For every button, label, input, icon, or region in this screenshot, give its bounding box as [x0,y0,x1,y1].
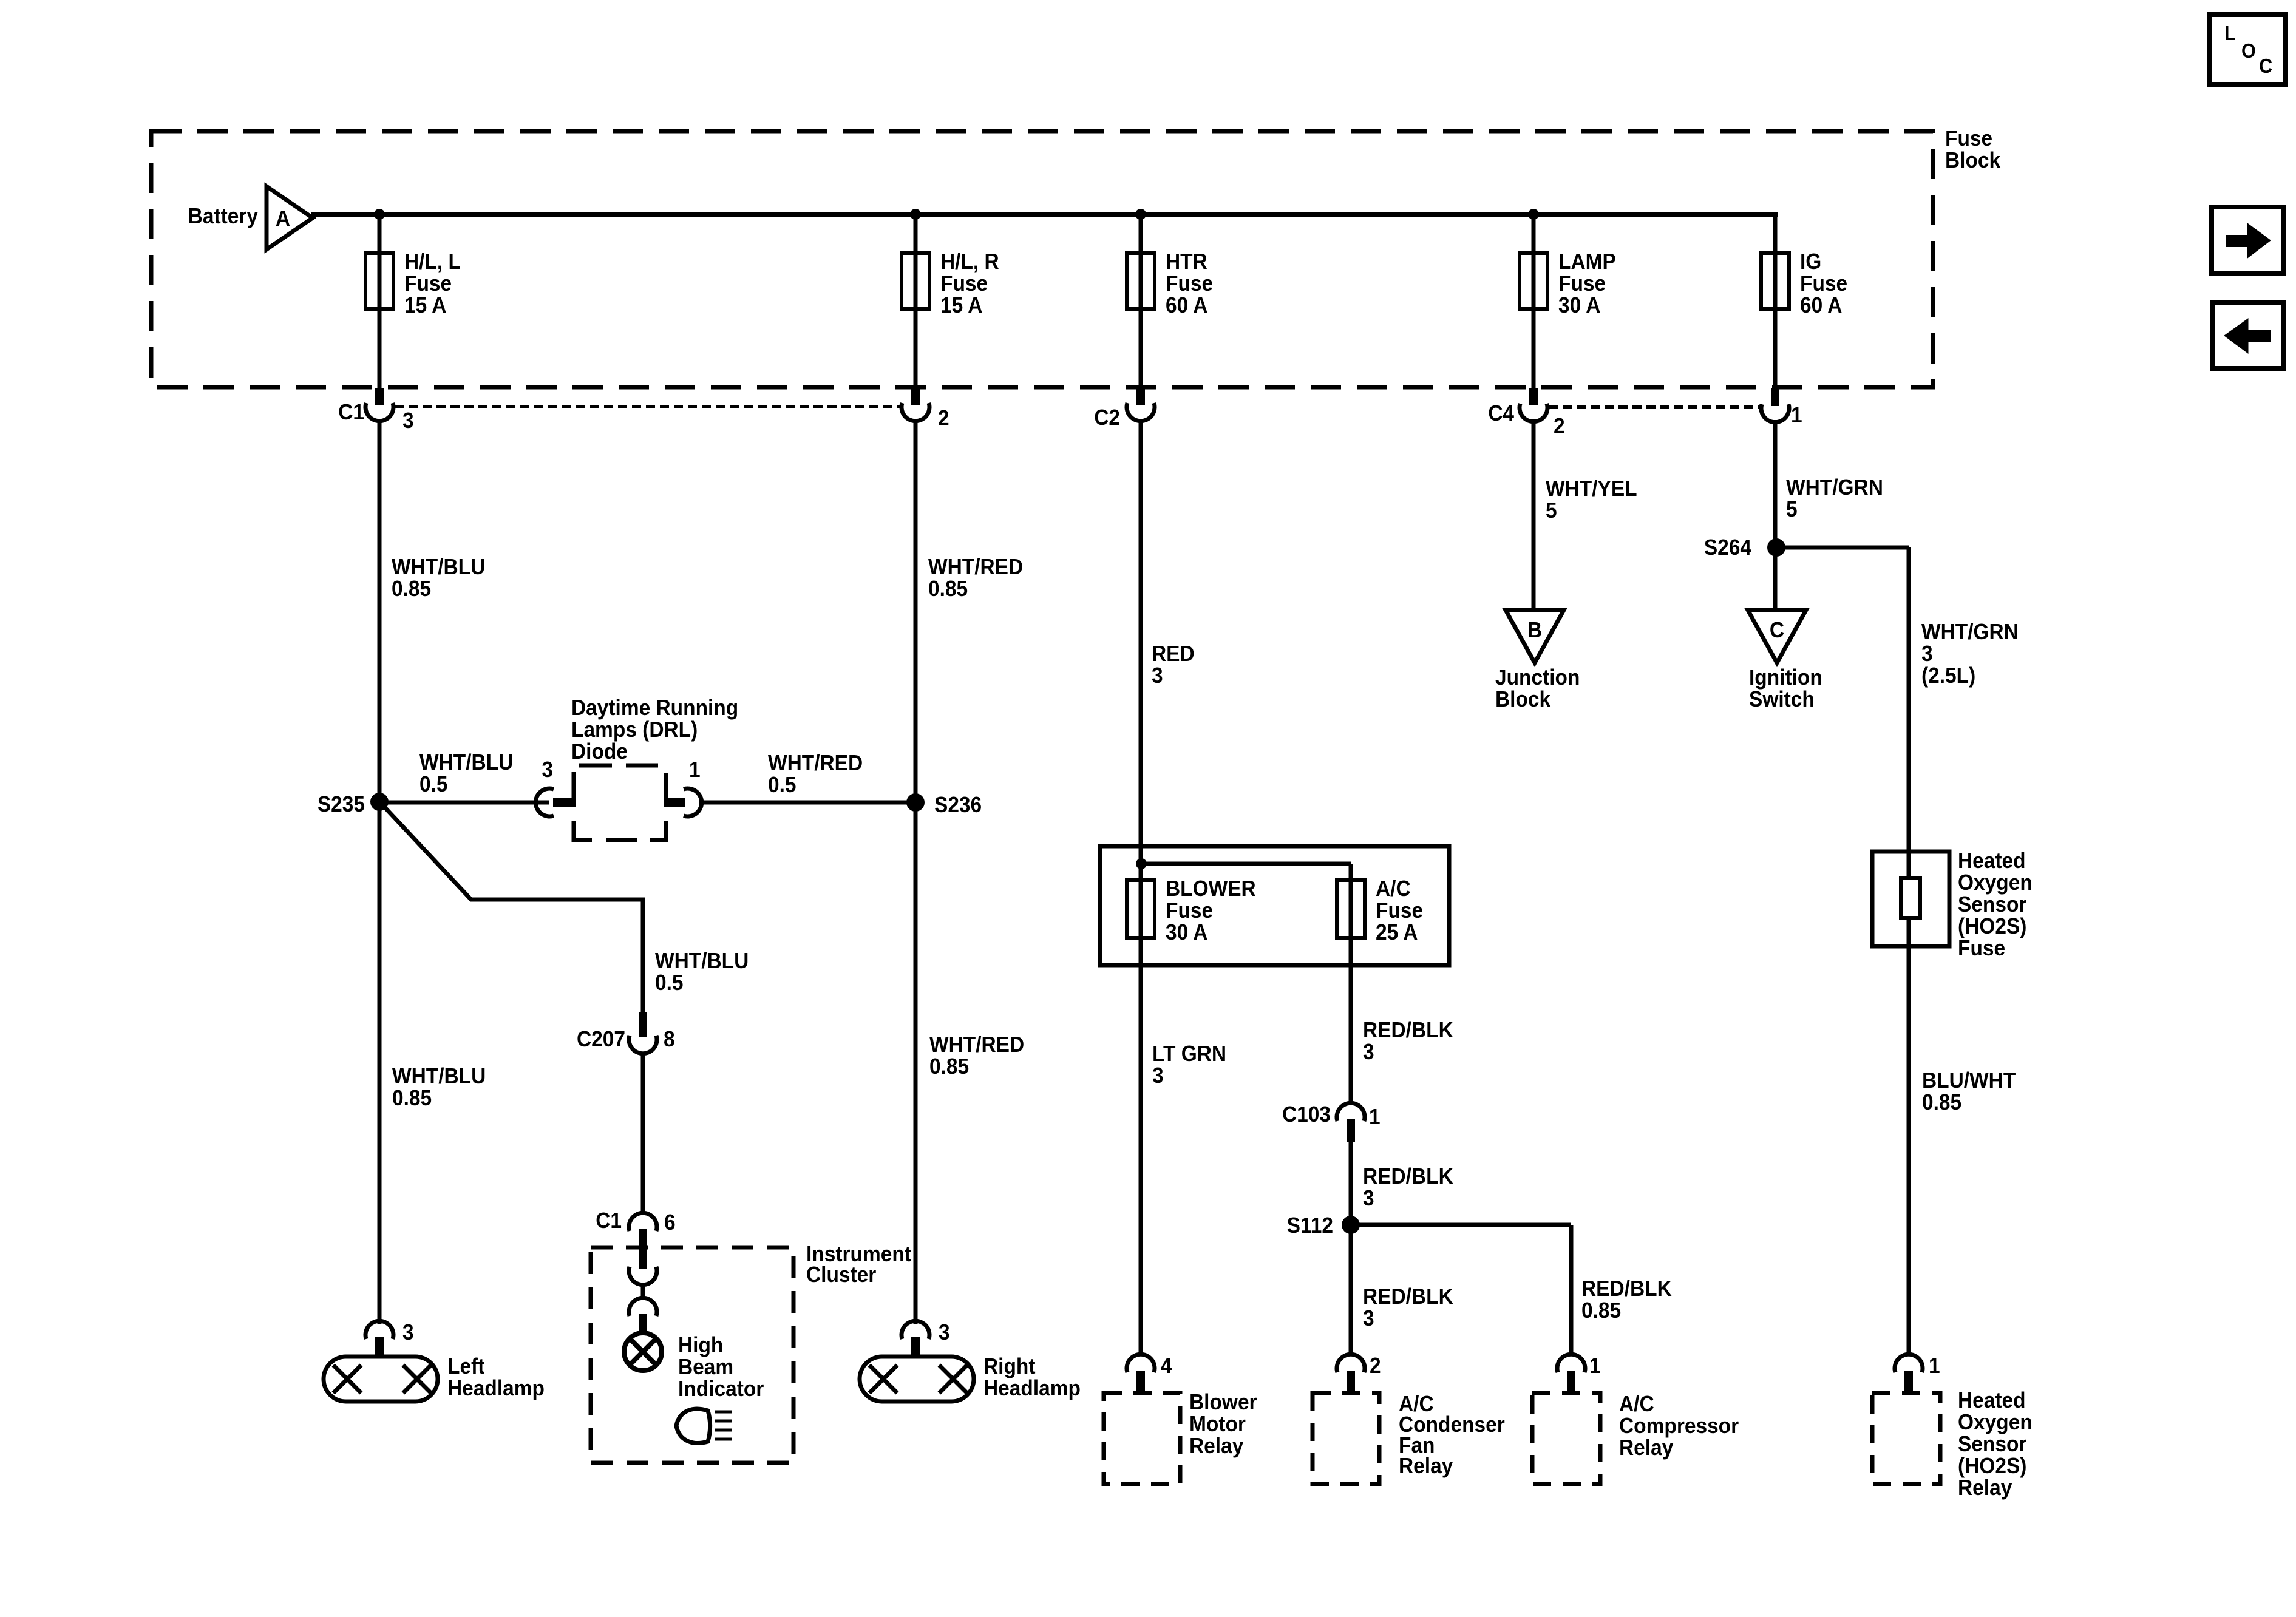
wire WHT/YEL [1532,419,1536,612]
svg-text:Heated: Heated [1958,849,2026,873]
svg-text:0.85: 0.85 [1581,1299,1621,1323]
svg-text:Cluster: Cluster [806,1263,876,1287]
svg-text:0.85: 0.85 [1922,1091,1961,1114]
wire RED/BLK lower [1349,1225,1353,1356]
svg-text:Heated: Heated [1958,1389,2026,1412]
wire S112 to compressor [1351,1225,1571,1356]
diode pin 3 [535,758,576,816]
svg-text:C: C [1770,619,1784,642]
wire label WHT/BLU 0.5 branch [655,949,749,995]
svg-text:Fuse: Fuse [1958,937,2005,960]
svg-text:Fuse: Fuse [404,272,452,296]
connector C1 pin 2 label [938,407,949,430]
wire WHT/GRN col5 [1773,420,1778,612]
connector C1 pin 3 [365,388,393,421]
svg-text:RED/BLK: RED/BLK [1363,1285,1453,1309]
svg-text:25 A: 25 A [1376,921,1418,944]
blower motor relay connector 4 [1127,1354,1172,1394]
svg-text:60 A: 60 A [1800,294,1842,317]
svg-text:30 A: 30 A [1558,294,1600,317]
wire label WHT/BLU 0.85 upper [392,555,485,601]
svg-text:BLOWER: BLOWER [1166,877,1256,901]
fuse BLOWER [1127,880,1155,938]
wire LT GRN [1139,938,1143,1356]
svg-text:S235: S235 [318,793,365,816]
svg-text:Switch: Switch [1749,688,1815,711]
svg-text:5: 5 [1546,499,1557,523]
svg-text:(HO2S): (HO2S) [1958,1454,2026,1478]
fuse AC [1337,880,1365,938]
svg-text:Oxygen: Oxygen [1958,1411,2033,1434]
wire RED col3 [1139,419,1143,846]
svg-text:1: 1 [1369,1105,1381,1129]
svg-text:1: 1 [1929,1354,1940,1378]
svg-text:C103: C103 [1282,1103,1331,1127]
connector C2 label [1094,406,1120,430]
svg-text:LT GRN: LT GRN [1152,1042,1226,1066]
wire label WHT/RED 0.5 [768,751,863,797]
svg-text:3: 3 [542,758,553,782]
wire WHT/RED col2 [914,419,918,1324]
svg-text:Fuse: Fuse [1558,272,1606,296]
connector C1 dotted boundary [395,405,901,408]
connector C4 dotted boundary [1549,405,1762,409]
svg-text:WHT/BLU: WHT/BLU [655,949,749,973]
wire label WHT/GRN 3 (2.5L) [1921,620,2019,688]
svg-text:RED/BLK: RED/BLK [1363,1165,1453,1188]
wire label RED/BLK 3 mid [1363,1165,1453,1210]
high beam icon [676,1409,732,1443]
instrument cluster (dashed box) [591,1247,793,1463]
svg-text:1: 1 [1791,404,1802,427]
svg-text:Diode: Diode [571,740,628,764]
svg-text:3: 3 [1152,1064,1164,1088]
svg-text:BLU/WHT: BLU/WHT [1922,1069,2016,1093]
wire BLU/WHT [1907,946,1911,1356]
node bus junction col2 [910,209,921,220]
svg-text:30 A: 30 A [1166,921,1207,944]
svg-text:C207: C207 [577,1028,625,1051]
wire + fuse IG [1761,253,1789,389]
svg-text:Junction: Junction [1495,666,1580,690]
svg-text:3: 3 [402,409,414,433]
wire label WHT/GRN 5 [1786,476,1883,521]
svg-text:WHT/BLU: WHT/BLU [392,1065,486,1088]
HO2S relay label [1958,1389,2033,1500]
svg-text:3: 3 [1152,664,1163,688]
right headlamp connector 3 [902,1321,950,1358]
wire label WHT/BLU 0.5 [419,751,513,796]
ac condenser fan relay (dashed box) [1313,1393,1379,1484]
svg-text:0.5: 0.5 [768,773,796,797]
underhood fuse box (solid) [1100,846,1449,965]
wire label WHT/YEL 5 [1546,477,1637,523]
svg-text:Block: Block [1945,149,2001,172]
svg-text:C1: C1 [338,401,364,424]
node S236 [906,793,982,817]
svg-text:15 A: 15 A [404,294,446,317]
wire S264 to HO2S [1776,547,1909,852]
svg-text:WHT/RED: WHT/RED [768,751,863,775]
svg-text:RED/BLK: RED/BLK [1581,1277,1672,1301]
inline connector female [629,1267,657,1285]
node bus junction col4 [1528,209,1539,220]
connector C4 pin 1 [1761,388,1789,422]
svg-text:Daytime Running: Daytime Running [571,696,738,720]
wire + fuse HTR [1127,214,1155,389]
svg-text:3: 3 [1363,1040,1374,1064]
svg-text:H/L, L: H/L, L [404,250,461,274]
HO2S relay connector 1 [1895,1354,1940,1394]
right headlamp [860,1357,974,1402]
LOC legend box [2209,15,2286,84]
svg-text:(2.5L): (2.5L) [1921,664,1975,688]
wire inline [641,1283,645,1300]
svg-text:WHT/YEL: WHT/YEL [1546,477,1637,501]
left headlamp [324,1357,438,1402]
node S112 [1287,1214,1360,1238]
svg-text:(HO2S): (HO2S) [1958,915,2026,938]
battery terminal A [267,186,313,249]
svg-text:C2: C2 [1094,406,1120,430]
svg-text:3: 3 [402,1321,414,1344]
svg-text:A: A [276,207,290,231]
wire label RED/BLK 3 lower [1363,1285,1453,1331]
svg-text:WHT/GRN: WHT/GRN [1921,620,2019,644]
connector C103 pin 1 [1282,1103,1381,1142]
wire diode to S236 [699,801,915,805]
svg-text:0.85: 0.85 [392,577,431,601]
node S264 [1704,536,1785,560]
DRL diode (dashed box) [574,765,666,840]
wire label WHT/RED 0.85 lower [929,1033,1024,1079]
svg-text:0.85: 0.85 [392,1086,432,1110]
svg-text:S112: S112 [1287,1214,1333,1238]
ac compressor relay label [1619,1392,1739,1460]
svg-text:4: 4 [1161,1354,1172,1378]
svg-text:Beam: Beam [678,1355,733,1379]
fuse AC label [1376,877,1423,944]
svg-text:3: 3 [1363,1307,1374,1331]
svg-text:0.5: 0.5 [655,971,684,995]
svg-text:Indicator: Indicator [678,1377,764,1401]
wire + fuse H/L R [902,214,929,389]
connector C2 pin [1127,388,1155,421]
svg-text:Relay: Relay [1399,1454,1453,1478]
svg-text:2: 2 [1370,1354,1381,1378]
blower motor relay (dashed box) [1104,1393,1180,1484]
svg-text:WHT/RED: WHT/RED [928,555,1023,579]
arrow left icon [2212,302,2283,368]
fuse H/L R label [940,250,999,317]
connector C1 pin 2 [902,388,929,421]
left headlamp label [447,1355,545,1400]
ac condenser fan relay label [1399,1392,1505,1478]
connector C4 pin 1 label [1791,404,1802,427]
wire battery bus [311,214,1778,256]
svg-text:5: 5 [1786,498,1798,521]
svg-text:Relay: Relay [1189,1434,1244,1458]
svg-text:Headlamp: Headlamp [447,1377,545,1400]
svg-text:C4: C4 [1488,402,1514,425]
right headlamp label [983,1355,1081,1400]
fuse HTR label [1166,250,1213,317]
svg-text:Lamps (DRL): Lamps (DRL) [571,718,698,742]
svg-text:3: 3 [1921,642,1933,666]
svg-text:Fuse: Fuse [1376,899,1423,923]
ac condenser fan relay connector 2 [1337,1354,1381,1394]
connector C4 pin 2 [1520,388,1547,422]
connector C4 label [1488,402,1564,438]
svg-text:LAMP: LAMP [1558,250,1616,274]
wire C207 to C1 [641,1052,645,1215]
svg-text:0.85: 0.85 [929,1055,969,1079]
svg-text:Fuse: Fuse [940,272,988,296]
svg-text:Sensor: Sensor [1958,1432,2026,1456]
node bus junction col1 [374,209,385,220]
svg-text:S264: S264 [1704,536,1752,560]
connector C207 pin 8 [577,1012,675,1054]
svg-text:A/C: A/C [1619,1392,1654,1416]
svg-text:A/C: A/C [1376,877,1411,901]
svg-text:1: 1 [1589,1354,1601,1378]
svg-text:H/L, R: H/L, R [940,250,999,274]
svg-text:WHT/BLU: WHT/BLU [392,555,485,579]
wire S235 diagonal branch [382,805,643,1012]
svg-text:2: 2 [1554,415,1565,438]
svg-text:Left: Left [447,1355,485,1378]
svg-text:WHT/RED: WHT/RED [929,1033,1024,1057]
svg-text:15 A: 15 A [940,294,982,317]
svg-text:Right: Right [983,1355,1036,1378]
arrow right icon [2212,207,2283,274]
high beam indicator label [678,1334,764,1401]
svg-text:Motor: Motor [1189,1412,1246,1436]
wire label WHT/RED 0.85 upper [928,555,1023,601]
svg-text:Fuse: Fuse [1945,127,1992,151]
wire label RED/BLK 0.85 [1581,1277,1672,1323]
svg-text:0.85: 0.85 [928,577,968,601]
HO2S relay (dashed box) [1872,1393,1940,1484]
wire label WHT/BLU 0.85 lower [392,1065,486,1110]
svg-text:Fuse: Fuse [1166,899,1213,923]
svg-text:WHT/GRN: WHT/GRN [1786,476,1883,500]
svg-text:1: 1 [689,758,701,782]
svg-text:Battery: Battery [188,205,259,228]
junction block terminal B [1506,610,1564,663]
svg-text:Ignition: Ignition [1749,666,1822,690]
svg-text:2: 2 [938,407,949,430]
connector C1 pin 6 [596,1209,675,1269]
svg-text:B: B [1527,619,1542,642]
svg-text:3: 3 [1363,1187,1374,1210]
fuse H/L L label [404,250,461,317]
svg-text:Relay: Relay [1619,1436,1674,1460]
high beam indicator bulb [624,1333,662,1371]
instrument cluster label [806,1242,911,1287]
fuse BLOWER label [1166,877,1256,944]
svg-text:IG: IG [1800,250,1821,274]
wire label RED 3 [1152,642,1195,688]
wire label RED/BLK 3 upper [1363,1019,1453,1064]
fuse block (dashed box) [151,131,1933,387]
svg-text:Blower: Blower [1189,1391,1257,1414]
wire + fuse LAMP [1520,214,1547,389]
node blower tap [1136,846,1351,880]
wire WHT/BLU col1 [378,419,382,1324]
wire RED/BLK upper [1349,938,1353,1105]
svg-text:6: 6 [664,1211,676,1235]
ac compressor relay connector 1 [1557,1354,1601,1394]
svg-text:0.5: 0.5 [419,773,448,796]
fuse LAMP label [1558,250,1616,317]
svg-text:3: 3 [939,1321,950,1344]
node bus junction col3 [1135,209,1146,220]
svg-text:C1: C1 [596,1209,622,1233]
svg-text:HTR: HTR [1166,250,1207,274]
svg-text:RED: RED [1152,642,1195,666]
wire S235 to diode [381,801,549,805]
ignition switch label [1749,666,1822,711]
wire + fuse H/L L [365,214,393,389]
inline connector male [629,1298,657,1334]
wire label BLU/WHT 0.85 [1922,1069,2016,1114]
fuse HO2S [1901,852,1920,946]
svg-text:C: C [2259,55,2272,77]
svg-text:L: L [2224,22,2236,44]
svg-text:O: O [2241,39,2256,62]
junction block label [1495,666,1580,711]
ignition switch terminal C [1748,610,1806,663]
diode pin 1 [664,758,702,816]
connector C1 label [338,401,413,433]
svg-text:60 A: 60 A [1166,294,1207,317]
svg-text:Block: Block [1495,688,1551,711]
svg-text:Sensor: Sensor [1958,893,2026,917]
svg-text:Fuse: Fuse [1800,272,1847,296]
blower motor relay label [1189,1391,1257,1458]
battery label [188,205,259,228]
svg-text:Fuse: Fuse [1166,272,1213,296]
wire RED/BLK mid [1349,1142,1353,1225]
svg-text:Oxygen: Oxygen [1958,871,2033,895]
svg-text:Headlamp: Headlamp [983,1377,1081,1400]
HO2S fuse box (solid) [1872,852,1949,946]
left headlamp connector 3 [365,1321,414,1358]
svg-text:WHT/BLU: WHT/BLU [419,751,513,775]
node S235 [318,793,389,816]
svg-text:Compressor: Compressor [1619,1414,1739,1438]
fuse block label [1945,127,2001,172]
wire label LT GRN 3 [1152,1042,1226,1088]
svg-text:RED/BLK: RED/BLK [1363,1019,1453,1042]
HO2S fuse label [1958,849,2033,960]
svg-text:High: High [678,1334,723,1357]
svg-text:S236: S236 [934,793,982,817]
DRL diode label [571,696,738,764]
svg-text:8: 8 [664,1028,675,1051]
fuse IG label [1800,250,1847,317]
ac compressor relay (dashed box) [1532,1393,1600,1484]
svg-text:Relay: Relay [1958,1476,2012,1500]
